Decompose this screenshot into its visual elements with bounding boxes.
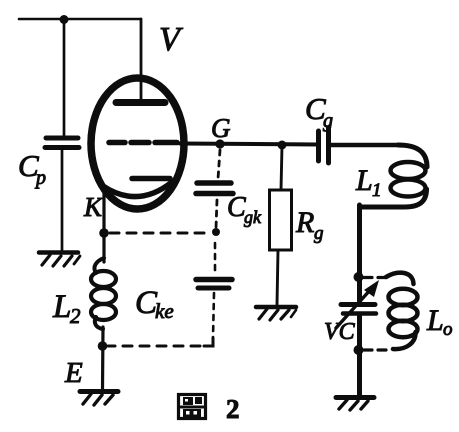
capacitor Cp (45, 138, 79, 148)
svg-text:1: 1 (372, 180, 382, 201)
wire K to L2 (102, 233, 105, 262)
wire Cp upper (63, 19, 66, 136)
wire top horizontal B+ (19, 18, 141, 21)
svg-text:2: 2 (226, 394, 240, 424)
capacitor Cg (319, 128, 329, 163)
inductor L2 (91, 258, 116, 329)
ground below Rg (256, 307, 296, 320)
wire Rg lower (277, 250, 278, 305)
svg-text:L: L (52, 289, 71, 325)
wire thick tank lower (357, 314, 362, 396)
svg-text:g: g (323, 110, 333, 132)
svg-text:2: 2 (70, 304, 81, 328)
node Rg junction (278, 141, 287, 150)
node E junction (98, 341, 108, 351)
wire dashed Cgk lower (216, 200, 217, 228)
wire dashed Cgk upper (218, 150, 220, 179)
wire Cp lower (61, 149, 64, 251)
svg-text:ke: ke (155, 299, 174, 323)
wire dashed Lo bottom (364, 348, 390, 351)
label Cp (18, 148, 46, 189)
capacitor Cke (196, 280, 232, 289)
caption number 2 (226, 394, 240, 424)
svg-text:V: V (159, 21, 184, 58)
wire K lead (102, 188, 105, 233)
label L2 (52, 289, 81, 328)
wire dashed Cke lower (213, 293, 214, 338)
label E (64, 357, 83, 389)
svg-text:K: K (83, 192, 104, 222)
label Lo (426, 304, 453, 340)
tube grid dashed bar (109, 140, 177, 146)
wire dashed bottom corner (204, 338, 213, 346)
svg-text:VC: VC (324, 319, 356, 345)
svg-text:R: R (295, 206, 314, 239)
capacitor Cgk (196, 183, 233, 194)
svg-text:g: g (314, 223, 324, 244)
svg-text:gk: gk (244, 207, 262, 227)
label Cgk (227, 192, 262, 227)
wire grid to node G (180, 144, 318, 145)
svg-text:L: L (426, 304, 444, 337)
label G (211, 113, 231, 143)
wire dashed E row (108, 345, 200, 348)
wire Rg upper (281, 146, 282, 190)
svg-text:o: o (443, 319, 453, 340)
node junction top-left (60, 15, 69, 24)
node tank bottom junction (354, 345, 364, 355)
tube V envelope (91, 78, 184, 209)
ground below E (80, 392, 118, 406)
wire thick tank upper (357, 205, 362, 302)
svg-text:E: E (64, 357, 83, 389)
ground below Cp (39, 253, 80, 267)
node tank top junction (354, 272, 364, 282)
node K junction (99, 228, 109, 238)
ground tank bottom (336, 398, 374, 411)
label Cke (135, 285, 174, 323)
label Cg (305, 91, 333, 132)
inductor Lo (386, 273, 418, 349)
wire plate lead down (140, 19, 143, 100)
wire dashed Lo top (364, 276, 387, 279)
label K (83, 192, 104, 222)
capacitor VC (336, 280, 379, 328)
caption stamp (179, 395, 206, 419)
svg-text:L: L (355, 164, 373, 197)
wire dashed Cke upper (214, 243, 217, 274)
label L1 (355, 164, 382, 201)
label V (159, 21, 184, 58)
inductor L1 (360, 145, 427, 207)
tube plate bar (116, 99, 165, 106)
node dashed junction (212, 228, 220, 236)
label Rg (295, 206, 324, 244)
resistor Rg (270, 190, 292, 250)
svg-text:G: G (211, 113, 231, 143)
wire L2 to E (101, 327, 105, 390)
tube cathode arc (103, 182, 172, 197)
svg-text:p: p (34, 167, 46, 189)
label VC (324, 319, 356, 345)
wire Cg to L1 (331, 143, 400, 147)
wire dashed K row (110, 232, 212, 235)
node G (215, 139, 224, 148)
tube cathode bar (132, 176, 170, 182)
